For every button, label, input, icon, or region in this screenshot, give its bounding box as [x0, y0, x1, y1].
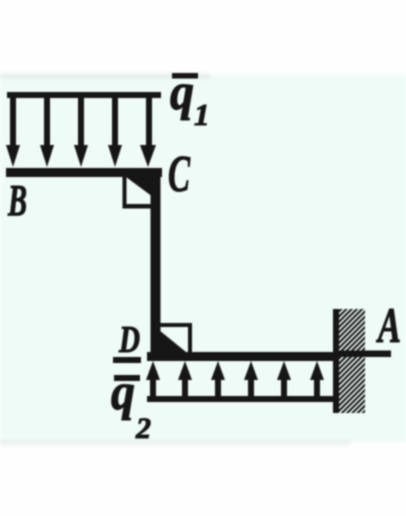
- svg-text:q: q: [111, 364, 135, 421]
- svg-text:1: 1: [194, 97, 210, 132]
- svg-text:q: q: [170, 64, 194, 121]
- svg-text:D: D: [118, 319, 140, 361]
- svg-text:2: 2: [135, 412, 151, 445]
- svg-text:B: B: [7, 176, 27, 225]
- svg-text:C: C: [168, 146, 191, 203]
- svg-text:A: A: [376, 297, 401, 353]
